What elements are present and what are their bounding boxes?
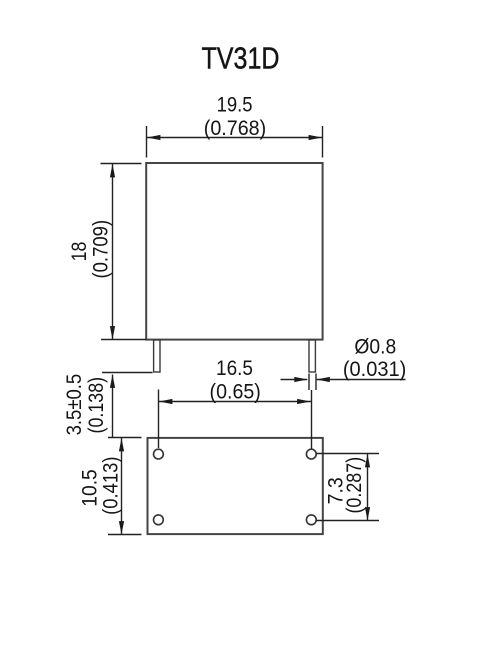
svg-text:Ø0.8: Ø0.8 [354, 336, 396, 359]
svg-text:TV31D: TV31D [202, 40, 280, 75]
svg-text:(0.413): (0.413) [100, 457, 123, 515]
svg-text:(0.138): (0.138) [85, 377, 108, 434]
svg-text:(0.709): (0.709) [90, 220, 113, 279]
svg-text:10.5: 10.5 [79, 469, 102, 507]
svg-text:18: 18 [68, 242, 91, 262]
svg-text:16.5: 16.5 [216, 357, 253, 380]
svg-text:(0.768): (0.768) [204, 117, 266, 140]
svg-text:(0.031): (0.031) [343, 358, 406, 381]
svg-text:(0.287): (0.287) [343, 457, 366, 514]
svg-text:19.5: 19.5 [217, 94, 253, 117]
svg-text:(0.65): (0.65) [210, 381, 261, 404]
svg-text:3.5±0.5: 3.5±0.5 [63, 374, 86, 436]
